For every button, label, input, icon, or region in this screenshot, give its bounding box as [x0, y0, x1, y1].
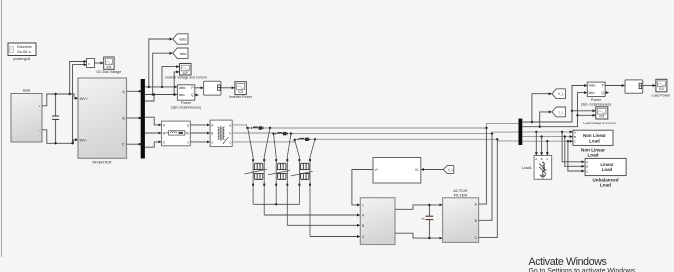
svg-text:Activate Windows: Activate Windows — [529, 256, 607, 268]
svg-text:B: B — [163, 132, 165, 136]
block Non Linear Load — [573, 130, 613, 145]
svg-text:(3ph, Instantaneous): (3ph, Instantaneous) — [171, 106, 201, 110]
svg-text:A: A — [122, 90, 125, 94]
scope Load Voltage & Current — [583, 107, 615, 125]
wire drop phase C to load unit 3 — [295, 140, 300, 157]
wire unit3 to controller input C — [310, 236, 360, 238]
wire drop to Load1 A — [535, 132, 537, 155]
wire active filter A to phase line A — [479, 128, 487, 204]
wire bus1 jog to Iabc line — [145, 95, 154, 102]
svg-text:Vabc: Vabc — [179, 38, 187, 42]
goto tag V_L — [552, 89, 565, 99]
wire drop to Linear Load A — [562, 132, 584, 162]
wire bus1 Iabc to Power1 — [145, 94, 177, 96]
svg-text:A: A — [535, 157, 537, 161]
wire inverter C to bus1 — [127, 143, 141, 145]
from tag V_L (to Vref) — [443, 166, 454, 174]
voltage measurement VM1 — [87, 59, 95, 68]
node DC- tap to voltage measurement — [73, 65, 87, 144]
wire branch to load scope input2 — [578, 114, 596, 116]
wire drop phase B to load unit 2 — [274, 134, 277, 157]
svg-text:Load: Load — [588, 153, 599, 158]
bus bar B1 — [141, 79, 145, 159]
subsystem INVERTER — [78, 78, 127, 164]
svg-text:B: B — [574, 135, 576, 139]
svg-text:+: + — [39, 104, 41, 108]
wire unit2 to controller input B — [287, 224, 360, 226]
series RL element phase A — [251, 126, 264, 129]
goto tag Vabc — [173, 34, 188, 44]
wire branch to goto I_L — [540, 112, 552, 127]
wire phase line A (transformer to bus2) — [232, 125, 486, 128]
svg-text:Q: Q — [601, 91, 604, 95]
svg-text:b: b — [187, 132, 189, 136]
svg-text:(3ph, Instantaneous): (3ph, Instantaneous) — [581, 102, 611, 106]
wire bus1 phase B to RLC branch — [145, 132, 161, 134]
svg-text:a: a — [229, 123, 231, 127]
load unit 3 — [291, 157, 313, 237]
svg-text:Go to Settings to activate Win: Go to Settings to activate Windows. — [529, 268, 638, 272]
wire Power1 P to meas block — [195, 87, 203, 89]
subsystem ACTIVE FILTER — [443, 188, 479, 242]
wire branch to goto Vabc — [149, 39, 173, 87]
wire battery- to DC- rail — [42, 130, 78, 144]
svg-text:1: 1 — [362, 203, 364, 207]
svg-text:Iabc: Iabc — [179, 93, 186, 97]
node dots phase B — [272, 132, 274, 134]
svg-text:B: B — [211, 132, 213, 136]
block Vref V* — [373, 158, 421, 184]
wire RLC b to transformer — [190, 132, 209, 134]
scope Load Power — [652, 79, 672, 97]
wire bus1 phase C to RLC branch — [145, 142, 161, 147]
wire branch to goto V_L — [532, 94, 552, 122]
svg-text:B: B — [362, 224, 364, 228]
svg-text:INV-: INV- — [80, 138, 88, 142]
goto tag Iabc — [173, 48, 188, 58]
capacitor C dc-link — [52, 93, 59, 145]
wire bus2 phase A to non linear load — [522, 131, 572, 133]
series RL element phase B — [275, 132, 288, 135]
svg-text:Load: Load — [589, 138, 600, 143]
wire branch to scope input 1 — [162, 67, 179, 87]
svg-text:V_L: V_L — [558, 92, 564, 96]
wire drop to Load1 C — [546, 141, 548, 155]
wire VM1 to DC Bus Voltage scope — [95, 62, 104, 64]
svg-text:Vabc: Vabc — [589, 84, 597, 88]
svg-text:DC Bus Voltage: DC Bus Voltage — [96, 70, 121, 74]
subsystem controller U1 — [360, 198, 395, 245]
svg-text:2e-06 s.: 2e-06 s. — [17, 49, 31, 54]
wire unit1 to controller input A — [264, 214, 360, 216]
wire drop phase A to load unit 1 — [248, 128, 253, 157]
wire bus2 I to Power2 Iabc — [522, 93, 587, 127]
wire controller out1 to active filter in1 — [395, 205, 442, 209]
node dots phase C — [294, 139, 296, 141]
block Power1 (3ph Instantaneous) — [171, 85, 201, 110]
svg-text:I_L: I_L — [559, 110, 564, 114]
svg-text:INVERTER: INVERTER — [92, 160, 111, 164]
capacitor Cdc (active filter dc link) — [422, 204, 434, 240]
block three-phase transformer T1 — [210, 120, 232, 147]
load unit 1 (three-phase transformer load) — [245, 157, 267, 215]
svg-text:V_L: V_L — [448, 168, 454, 172]
svg-text:Iabc: Iabc — [180, 52, 187, 56]
svg-text:A: A — [586, 160, 588, 164]
svg-text:v: v — [88, 62, 90, 66]
svg-text:Q: Q — [191, 93, 194, 97]
scope DC Bus Voltage — [96, 57, 121, 74]
wire bus2 phase B to non linear load — [522, 136, 572, 138]
block Linear Load — [585, 158, 626, 175]
svg-text:Load Voltage & Current: Load Voltage & Current — [583, 121, 615, 125]
svg-text:a: a — [187, 123, 189, 127]
svg-text:FILTER: FILTER — [454, 193, 468, 198]
svg-text:A: A — [574, 130, 576, 134]
wire phase line B — [232, 132, 492, 135]
wire battery+ to DC+ rail — [42, 94, 78, 106]
block meas M1 — [204, 81, 221, 95]
block meas M2 — [625, 80, 643, 93]
scope Inverter Voltage and Current — [165, 64, 207, 80]
svg-text:B: B — [586, 165, 588, 169]
battery Batt — [11, 88, 42, 142]
scope Inverter Power — [229, 82, 253, 99]
wire active filter B to phase line B — [479, 134, 492, 221]
wire drop to Linear Load C — [568, 141, 584, 171]
svg-text:Load: Load — [600, 183, 611, 188]
svg-text:C: C — [122, 143, 125, 147]
wire bus1 phase A to RLC branch — [145, 117, 161, 125]
svg-text:dc: dc — [422, 216, 426, 220]
wire V* output to controller input 1 — [352, 170, 373, 205]
wire drop to Linear Load B — [565, 137, 585, 167]
svg-text:Load1: Load1 — [522, 166, 532, 170]
wire inverter A to bus1 — [127, 90, 141, 92]
node dots phase A — [247, 127, 249, 129]
svg-text:Load: Load — [602, 167, 613, 172]
svg-text:Inverter Voltage and Current: Inverter Voltage and Current — [165, 75, 207, 79]
series RL element phase C — [297, 138, 310, 141]
svg-text:powergui1: powergui1 — [13, 57, 31, 61]
wire branch to goto Iabc — [153, 53, 173, 94]
svg-text:Vabc: Vabc — [179, 86, 187, 90]
svg-text:VL: VL — [415, 168, 419, 172]
svg-text:INV+: INV+ — [80, 97, 89, 101]
wire branch to load scope input1 — [572, 110, 595, 112]
wire controller out2 to active filter in2 — [395, 233, 442, 238]
wire Power2 Q stub — [605, 92, 609, 94]
powergui block — [8, 43, 36, 56]
svg-text:Load Power: Load Power — [652, 93, 672, 97]
canvas left border — [1, 0, 3, 257]
bus bar B2 — [519, 119, 523, 145]
wire meas M2 to Load Power scope — [643, 85, 656, 87]
svg-text:Power: Power — [181, 101, 192, 105]
block three-phase series RLC branch — [162, 121, 191, 146]
svg-text:Inverter Power: Inverter Power — [229, 95, 253, 99]
wire bus2 V to Power2 Vabc — [522, 86, 587, 123]
svg-text:Iabc: Iabc — [589, 91, 596, 95]
svg-text:B: B — [541, 157, 543, 161]
goto tag I_L — [552, 107, 565, 117]
wire active filter C to phase line C — [479, 139, 498, 237]
wire meas M1 to Inverter Power scope — [221, 87, 235, 89]
wire phase line C — [232, 139, 497, 142]
block Power2 (3ph Instantaneous) — [581, 82, 611, 106]
wire from tag V_L to VL port — [421, 169, 443, 171]
svg-text:b: b — [229, 132, 231, 136]
wire bus1 Vabc to Power1 — [145, 86, 177, 88]
svg-text:B: B — [475, 219, 477, 223]
wire bus2 phase C to non linear load — [522, 140, 572, 142]
wire Power1 Q stub — [195, 94, 199, 96]
wire RLC a to transformer — [190, 124, 209, 126]
wire inverter B to bus1 — [127, 117, 141, 119]
block Load1 (RL load with ground) — [534, 156, 552, 180]
wire Power2 P to meas block M2 — [605, 85, 625, 87]
wire drop to Load1 B — [541, 137, 543, 156]
load unit 2 — [268, 157, 290, 225]
node DC+ tap to voltage measurement — [70, 62, 87, 95]
wire RLC c to transformer — [190, 141, 209, 143]
wire common neutral of load units — [253, 203, 299, 205]
svg-text:Batt: Batt — [23, 88, 31, 92]
svg-text:B: B — [122, 117, 125, 121]
wire branch to scope input 2 — [174, 72, 179, 95]
